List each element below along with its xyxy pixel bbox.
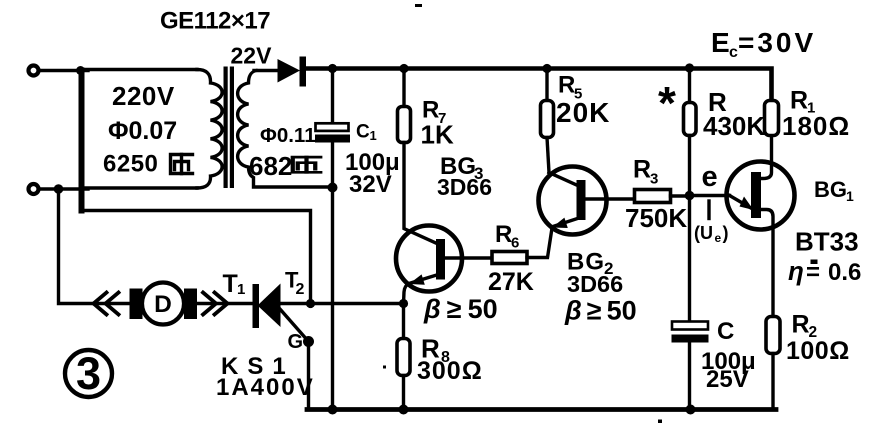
svg-text:3D66: 3D66: [567, 271, 623, 297]
svg-text:180Ω: 180Ω: [782, 111, 850, 141]
svg-text:1A400V: 1A400V: [216, 374, 315, 401]
svg-text:1K: 1K: [421, 120, 454, 150]
svg-text:300Ω: 300Ω: [417, 357, 483, 385]
svg-text:BG: BG: [814, 177, 847, 202]
svg-text:R: R: [558, 72, 575, 99]
svg-text:β≥50: β≥50: [564, 296, 637, 326]
svg-text:η: η: [788, 256, 804, 286]
svg-text:D: D: [154, 291, 172, 318]
svg-text:25V: 25V: [706, 366, 749, 393]
svg-text:1: 1: [846, 188, 854, 204]
svg-text:R: R: [792, 311, 810, 339]
svg-text:(U: (U: [694, 223, 713, 243]
svg-text:100Ω: 100Ω: [786, 337, 850, 365]
svg-text:1: 1: [370, 128, 377, 143]
svg-text:): ): [723, 223, 729, 243]
svg-text:=30V: =30V: [738, 27, 816, 58]
svg-text:32V: 32V: [349, 171, 392, 198]
svg-text:2: 2: [296, 281, 305, 298]
svg-text:6: 6: [511, 235, 519, 252]
svg-text:BT33: BT33: [795, 227, 859, 257]
svg-text:3D66: 3D66: [437, 174, 492, 200]
svg-text:682: 682: [249, 151, 292, 181]
svg-text:3: 3: [76, 348, 101, 399]
svg-text:β≥50: β≥50: [423, 294, 498, 324]
svg-text:C: C: [717, 318, 734, 345]
svg-text:R: R: [495, 221, 512, 248]
svg-text:c: c: [729, 44, 738, 61]
svg-text:750K: 750K: [625, 203, 687, 233]
svg-text:G: G: [288, 331, 304, 353]
svg-text:20K: 20K: [556, 97, 610, 128]
svg-text:Φ0.07: Φ0.07: [108, 117, 177, 145]
svg-text:*: *: [658, 77, 676, 129]
svg-text:430K: 430K: [703, 111, 765, 141]
svg-text:e: e: [715, 231, 722, 245]
svg-text:22V: 22V: [231, 43, 273, 69]
svg-text:e: e: [702, 161, 718, 193]
svg-text:T: T: [223, 270, 238, 298]
svg-text:GE112×17: GE112×17: [160, 8, 270, 35]
svg-text:Φ0.11: Φ0.11: [260, 124, 316, 147]
svg-text:1: 1: [237, 281, 245, 298]
svg-text:27K: 27K: [488, 268, 534, 296]
svg-text:6250: 6250: [103, 151, 158, 178]
svg-text:R: R: [633, 156, 651, 184]
svg-text:C: C: [356, 122, 370, 143]
svg-text:0.6: 0.6: [828, 259, 861, 286]
svg-text:3: 3: [650, 171, 658, 188]
svg-text:220V: 220V: [112, 81, 175, 111]
svg-text:E: E: [711, 27, 730, 58]
